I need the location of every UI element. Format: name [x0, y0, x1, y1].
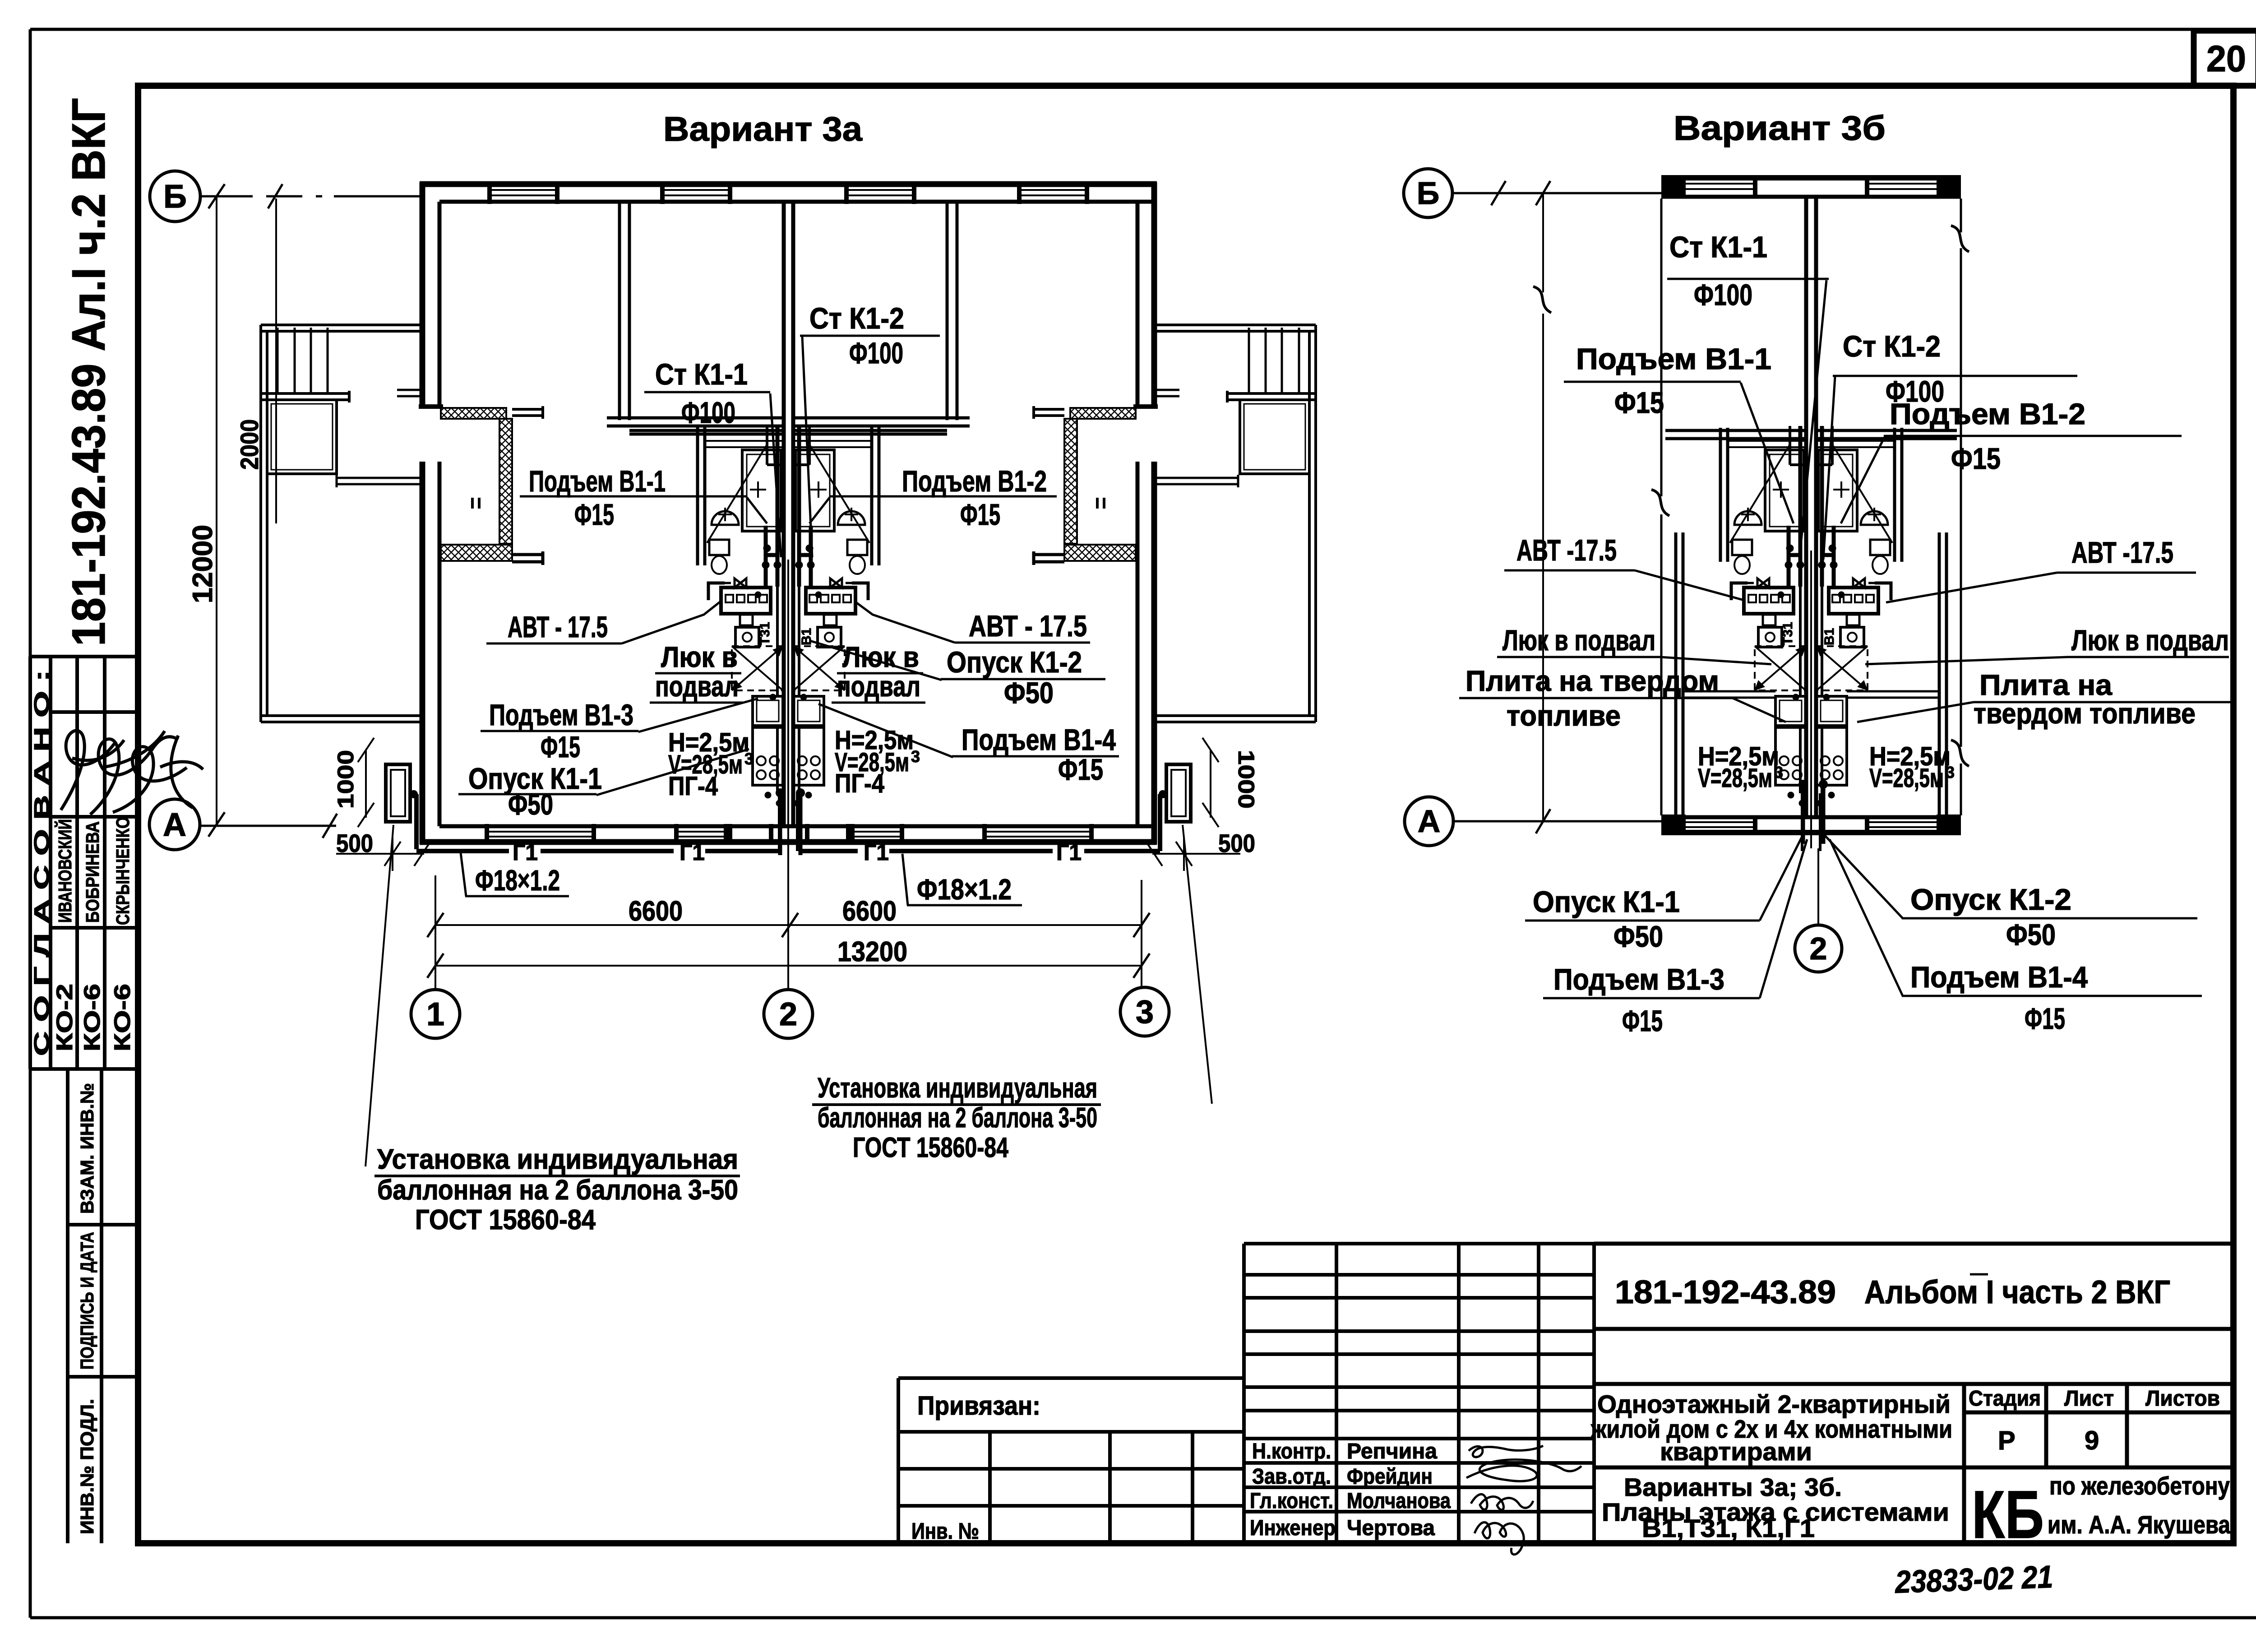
gas cylinder cabinet left	[336, 738, 430, 871]
label St K1-1	[644, 357, 781, 557]
svg-text:V=28,5м: V=28,5м	[1698, 764, 1772, 793]
door jamb marks	[472, 498, 479, 509]
label St K1-2	[800, 301, 940, 557]
hatched partition horizontal top	[441, 408, 506, 419]
svg-text:ПГ-4: ПГ-4	[835, 769, 884, 798]
dimension line 13200	[427, 936, 1150, 978]
svg-text:Т31: Т31	[758, 622, 772, 645]
svg-text:баллонная на 2 баллона 3-50: баллонная на 2 баллона 3-50	[377, 1175, 738, 1206]
label Podyom V1-1 (3b)	[1564, 342, 1794, 523]
label Podyom V1-1	[520, 464, 767, 531]
label H/V right (3b)	[1869, 742, 1955, 793]
gas stove	[753, 727, 783, 785]
svg-text:Чертова: Чертова	[1347, 1516, 1435, 1540]
valve	[725, 578, 746, 588]
svg-text:Ф100: Ф100	[681, 396, 735, 429]
label F18x1.2 left	[461, 853, 569, 897]
label Lyuk v podval left	[650, 641, 744, 703]
svg-text:Ф15: Ф15	[1614, 386, 1664, 419]
toilet	[709, 540, 729, 555]
svg-text:Ф50: Ф50	[1613, 920, 1663, 953]
svg-text:23833-02 21: 23833-02 21	[1894, 1559, 2053, 1600]
vertical extension 2000	[235, 199, 276, 523]
svg-text:Установка индивидуальная: Установка индивидуальная	[377, 1144, 738, 1175]
label Opusk K1-2 (3b)	[1824, 835, 2197, 951]
porch door stubs	[337, 475, 420, 487]
svg-text:500: 500	[336, 829, 373, 857]
plan 3a interior (left apartment)	[441, 203, 784, 565]
svg-text:ПОДПИСЬ И ДАТА: ПОДПИСЬ И ДАТА	[77, 1232, 97, 1370]
axis marker A (3b)	[1405, 797, 1661, 846]
axis marker B (3b)	[1404, 169, 1661, 217]
left wall cap	[419, 404, 443, 409]
right wall cap	[1133, 404, 1158, 409]
signatures in approval table	[61, 731, 203, 814]
svg-text:20: 20	[2206, 38, 2246, 79]
label St K1-2 (3b)	[1823, 329, 2077, 560]
label St K1-1 (3b)	[1667, 230, 1829, 560]
svg-text:Ф15: Ф15	[1951, 442, 2001, 475]
boiler	[735, 627, 759, 647]
svg-text:Стадия: Стадия	[1969, 1387, 2041, 1411]
axis circle 2 (3b)	[1795, 848, 1842, 972]
right wall outer	[1151, 182, 1157, 844]
dimension line 6600+6600	[427, 896, 1150, 937]
svg-text:3: 3	[1946, 763, 1955, 782]
svg-text:Подъем В1-4: Подъем В1-4	[962, 723, 1116, 756]
central risers through bottom wall	[780, 794, 800, 855]
svg-text:12000: 12000	[187, 525, 218, 603]
svg-text:ГОСТ 15860-84: ГОСТ 15860-84	[853, 1132, 1008, 1163]
svg-text:Зав.отд.: Зав.отд.	[1252, 1465, 1331, 1489]
label AVT-17.5 left (3b)	[1504, 533, 1744, 600]
svg-text:Ст К1-2: Ст К1-2	[1843, 329, 1941, 363]
svg-text:Ф50: Ф50	[1004, 676, 1054, 709]
svg-text:Гл.конст.: Гл.конст.	[1250, 1489, 1333, 1513]
label Podyom V1-3 (3b)	[1543, 839, 1807, 1037]
bottom wall inner	[1661, 815, 1961, 819]
svg-text:АВТ - 17.5: АВТ - 17.5	[508, 610, 608, 643]
svg-text:Подъем В1-2: Подъем В1-2	[1890, 397, 2085, 430]
svg-text:А: А	[1418, 804, 1441, 839]
svg-text:Люк в подвал: Люк в подвал	[2071, 624, 2229, 657]
plan 3a exterior walls	[419, 182, 1158, 844]
top wall inner	[1661, 195, 1961, 199]
svg-text:Опуск К1-2: Опуск К1-2	[1910, 883, 2071, 916]
svg-text:Ф50: Ф50	[508, 787, 553, 821]
svg-text:Ф15: Ф15	[1622, 1004, 1663, 1037]
svg-text:В1,Т31, К1,Г1: В1,Т31, К1,Г1	[1642, 1514, 1815, 1542]
svg-text:Люк в: Люк в	[661, 641, 738, 673]
axis circle 2	[764, 990, 813, 1038]
bathroom walls 3b	[1720, 428, 1902, 562]
shaft band	[706, 441, 784, 447]
party wall 3b	[1806, 197, 1816, 817]
svg-text:Ф15: Ф15	[2025, 1002, 2065, 1035]
svg-text:Ф15: Ф15	[960, 498, 1000, 531]
svg-text:3: 3	[1774, 763, 1783, 782]
svg-text:13200: 13200	[837, 936, 907, 967]
svg-text:Ф50: Ф50	[2006, 918, 2056, 951]
svg-text:КО-2: КО-2	[52, 984, 77, 1051]
label AVT-17.5 right (3b)	[1886, 536, 2196, 602]
axis circle 3	[1120, 987, 1169, 1036]
plan 3a core fixtures (left apartment)	[706, 426, 784, 851]
party wall	[784, 203, 793, 825]
title block: main table	[1594, 1244, 2233, 1543]
svg-text:Плита на: Плита на	[1979, 669, 2112, 701]
room partition	[619, 203, 629, 420]
left wall outer	[420, 182, 425, 844]
label Opusk K1-1 (3b)	[1525, 835, 1803, 953]
label Lyuk v podval right (3b)	[1865, 624, 2229, 664]
AVT gas water heater	[721, 588, 771, 614]
svg-text:Люк в: Люк в	[842, 641, 919, 673]
svg-text:Листов: Листов	[2145, 1387, 2220, 1411]
svg-text:Подъем В1-1: Подъем В1-1	[1576, 342, 1771, 375]
svg-text:500: 500	[1218, 829, 1255, 857]
bottom wall outer	[1661, 830, 1961, 835]
label Lyuk v podval right	[832, 641, 925, 703]
label Lyuk v podval left (3b)	[1497, 624, 1771, 664]
sheet number box 20	[2194, 31, 2256, 86]
svg-text:топливе: топливе	[1507, 699, 1621, 732]
svg-text:Подъем В1-3: Подъем В1-3	[489, 698, 633, 731]
label Podyom V1-3	[481, 698, 758, 764]
vertical extension line 3b	[1533, 193, 1551, 821]
svg-text:Люк в подвал: Люк в подвал	[1502, 624, 1655, 657]
svg-text:БОБРИНЕВА: БОБРИНЕВА	[82, 821, 103, 923]
svg-text:Молчанова: Молчанова	[1347, 1489, 1451, 1513]
porch upper connector lines	[397, 390, 1179, 396]
top wall outer face	[420, 181, 1157, 187]
svg-text:2000: 2000	[235, 419, 264, 470]
svg-text:Ф15: Ф15	[574, 498, 614, 531]
bathroom door swing	[707, 444, 767, 543]
svg-text:2: 2	[779, 996, 797, 1032]
label H/V left (3b)	[1698, 742, 1783, 793]
sidebar approval table (СОГЛАСОВАНО)	[30, 657, 138, 1069]
left porch with stairs	[261, 325, 422, 722]
svg-text:Лист: Лист	[2064, 1387, 2114, 1411]
svg-text:ГОСТ 15860-84: ГОСТ 15860-84	[415, 1204, 596, 1236]
svg-text:ИНВ.№ ПОДЛ.: ИНВ.№ ПОДЛ.	[77, 1399, 97, 1534]
bottom wall windows	[487, 832, 1091, 837]
svg-text:3: 3	[744, 750, 754, 768]
label Podyom V1-2 (3b)	[1841, 397, 2182, 523]
bottom wall inner face	[439, 824, 1154, 828]
svg-text:Ст К1-1: Ст К1-1	[655, 357, 748, 391]
svg-text:Подъем В1-2: Подъем В1-2	[902, 464, 1047, 498]
svg-text:Инв. №: Инв. №	[911, 1518, 979, 1544]
svg-text:Подъем В1-1: Подъем В1-1	[529, 464, 666, 498]
svg-text:СКРЫНЧЕНКО: СКРЫНЧЕНКО	[112, 817, 133, 925]
svg-text:1000: 1000	[333, 750, 358, 809]
svg-text:подвал: подвал	[837, 670, 920, 703]
svg-text:6600: 6600	[842, 896, 897, 927]
svg-text:Установка индивидуальная: Установка индивидуальная	[818, 1073, 1097, 1104]
svg-text:КО-6: КО-6	[79, 984, 105, 1051]
svg-text:Инженер: Инженер	[1250, 1516, 1336, 1540]
label Podyom V1-2	[809, 464, 1057, 531]
svg-text:В1: В1	[799, 628, 814, 645]
label H/V/PG right	[835, 726, 920, 798]
label Opusk K1-2	[810, 641, 1105, 709]
svg-text:181-192-43.89: 181-192-43.89	[1615, 1274, 1836, 1310]
riser pipes	[766, 426, 777, 587]
svg-text:Б: Б	[163, 179, 187, 215]
plan 3b core fixtures	[1729, 426, 1807, 851]
svg-text:ИВАНОВСКИЙ: ИВАНОВСКИЙ	[55, 819, 75, 923]
label Podyom V1-4 (3b)	[1830, 839, 2202, 1035]
top wall inner face	[439, 200, 1154, 204]
svg-text:АВТ - 17.5: АВТ - 17.5	[969, 609, 1087, 643]
hatched partition vertical	[499, 419, 512, 544]
svg-text:Подъем В1-4: Подъем В1-4	[1910, 960, 2088, 994]
svg-text:Г1: Г1	[513, 840, 538, 865]
svg-text:Б: Б	[1417, 176, 1439, 211]
kitchen sink	[753, 696, 783, 726]
note Ustanovka left	[365, 825, 740, 1236]
svg-text:Ф15: Ф15	[1058, 753, 1103, 786]
svg-text:квартирами: квартирами	[1660, 1437, 1812, 1466]
svg-text:Опуск К1-2: Опуск К1-2	[947, 645, 1082, 679]
title block: revision table	[1244, 1244, 1594, 1543]
svg-text:Опуск К1-1: Опуск К1-1	[1533, 885, 1680, 918]
bathroom wall	[698, 426, 705, 565]
label Opusk K1-1	[458, 749, 749, 821]
svg-text:1: 1	[426, 996, 444, 1032]
svg-text:Подъем В1-3: Подъем В1-3	[1553, 963, 1724, 996]
top wall windows	[490, 190, 1087, 195]
svg-text:В1: В1	[1822, 628, 1837, 645]
svg-text:Ф15: Ф15	[541, 730, 580, 764]
svg-text:АВТ -17.5: АВТ -17.5	[2071, 536, 2173, 569]
svg-text:2: 2	[1810, 931, 1827, 966]
hall wall horizontal	[607, 418, 784, 434]
svg-text:6600: 6600	[629, 896, 683, 927]
svg-text:Фрейдин: Фрейдин	[1347, 1465, 1433, 1489]
svg-text:Альбом I часть 2 ВКГ: Альбом I часть 2 ВКГ	[1864, 1274, 2170, 1310]
central risers 3b	[1803, 783, 1823, 844]
3b kitchen counter lines	[1683, 691, 1939, 698]
svg-text:1000: 1000	[1234, 750, 1259, 809]
label Plita left (3b)	[1459, 665, 1786, 732]
svg-text:181-192.43.89 Ал.I ч.2 ВКГ: 181-192.43.89 Ал.I ч.2 ВКГ	[63, 98, 115, 646]
axis marker A (3a)	[149, 799, 337, 850]
svg-text:Вариант 3а: Вариант 3а	[663, 110, 863, 148]
svg-text:АВТ -17.5: АВТ -17.5	[1516, 533, 1617, 567]
svg-text:Вариант 3б: Вариант 3б	[1674, 109, 1886, 148]
label F18x1.2 right	[902, 854, 1022, 906]
svg-text:Ф100: Ф100	[1694, 278, 1752, 311]
plan 3b exterior walls	[1661, 178, 1961, 833]
label AVT-17.5 left	[486, 601, 721, 643]
svg-text:им. А.А. Якушева: им. А.А. Якушева	[2048, 1510, 2231, 1539]
svg-text:ВЗАМ. ИНВ.№: ВЗАМ. ИНВ.№	[77, 1083, 97, 1214]
bath tub	[742, 450, 781, 531]
svg-text:Г1: Г1	[680, 840, 705, 865]
svg-text:КО-6: КО-6	[110, 984, 135, 1051]
svg-text:Ст К1-2: Ст К1-2	[809, 301, 904, 335]
axis marker B (3a)	[150, 171, 420, 222]
svg-text:Репчина: Репчина	[1347, 1439, 1437, 1463]
svg-text:3: 3	[911, 747, 920, 766]
svg-text:подвал: подвал	[655, 670, 739, 703]
bottom wall outer face	[420, 839, 1157, 845]
svg-text:А: А	[163, 807, 186, 843]
label AVT-17.5 right	[855, 602, 1090, 643]
svg-text:Варианты 3а; 3б.: Варианты 3а; 3б.	[1624, 1473, 1842, 1501]
top wall corner posts	[1661, 176, 1686, 199]
gas line G1 along bottom	[416, 794, 1160, 851]
svg-text:Г1: Г1	[1056, 840, 1082, 865]
vertical dimension 12000	[187, 184, 225, 837]
svg-text:КБ: КБ	[1972, 1476, 2044, 1552]
top wall outer	[1661, 175, 1961, 180]
svg-text:ПГ-4: ПГ-4	[668, 772, 718, 801]
label Plita right (3b)	[1857, 669, 2231, 730]
signatures in revision table	[1466, 1446, 1581, 1555]
hatched partition horizontal bottom	[441, 545, 512, 561]
svg-text:Н.контр.: Н.контр.	[1252, 1439, 1331, 1463]
title block: privyazan table	[898, 1378, 1244, 1543]
svg-text:Одноэтажный 2-квартирный: Одноэтажный 2-квартирный	[1597, 1390, 1951, 1418]
right wall inner	[1136, 202, 1140, 826]
svg-text:Привязан:: Привязан:	[917, 1391, 1040, 1421]
svg-text:Ф100: Ф100	[849, 336, 903, 370]
svg-text:Ст К1-1: Ст К1-1	[1669, 230, 1767, 264]
top wall windows	[1686, 184, 1937, 827]
note Ustanovka right	[812, 825, 1212, 1163]
svg-text:Р: Р	[1998, 1426, 2016, 1455]
sidebar lower stamp table	[68, 1069, 138, 1543]
svg-text:9: 9	[2085, 1426, 2099, 1455]
extension lines to axis circles	[435, 860, 1142, 990]
left wall inner	[438, 202, 442, 826]
svg-text:баллонная на 2 баллона 3-50: баллонная на 2 баллона 3-50	[818, 1102, 1097, 1134]
svg-text:V=28,5м: V=28,5м	[1869, 764, 1944, 793]
label H/V/PG left	[668, 728, 754, 801]
svg-text:Г1: Г1	[864, 840, 889, 865]
svg-text:по железобетону: по железобетону	[2049, 1472, 2230, 1500]
pipe connections below stove	[765, 792, 771, 798]
svg-text:Ф18×1.2: Ф18×1.2	[475, 864, 560, 897]
label Podyom V1-4	[818, 704, 1119, 786]
wash basin	[712, 511, 739, 525]
svg-text:Плита на твердом: Плита на твердом	[1465, 665, 1719, 697]
svg-text:Ф18×1.2: Ф18×1.2	[917, 873, 1012, 906]
axis circle 1	[411, 990, 460, 1038]
basement hatch	[732, 646, 783, 690]
svg-text:С О Г Л А С О В А Н О :: С О Г Л А С О В А Н О :	[30, 670, 53, 1056]
plan 3b interior partitions	[1665, 430, 1957, 815]
section boundary lines with breaks	[1651, 199, 1969, 815]
svg-text:3: 3	[1136, 994, 1154, 1030]
kitchen partition thin extension	[512, 551, 543, 565]
